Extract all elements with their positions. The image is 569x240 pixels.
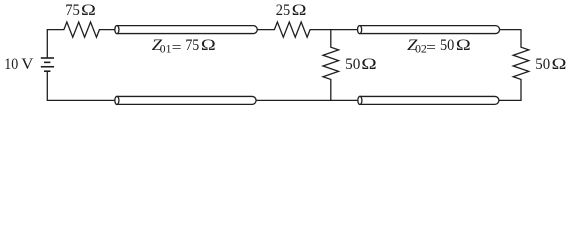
- svg-text:V: V: [21, 56, 34, 73]
- svg-text:50: 50: [440, 37, 454, 54]
- svg-text:75: 75: [185, 37, 199, 54]
- svg-text:Ω: Ω: [292, 2, 307, 19]
- svg-text:50: 50: [345, 56, 360, 73]
- svg-text:Ω: Ω: [552, 56, 567, 73]
- svg-text:Ω: Ω: [201, 37, 216, 54]
- svg-text:50: 50: [535, 56, 550, 73]
- svg-text:Ω: Ω: [456, 37, 471, 54]
- svg-text:Ω: Ω: [361, 56, 377, 73]
- svg-text:Ω: Ω: [81, 2, 96, 19]
- svg-text:01: 01: [160, 44, 172, 56]
- svg-text:25: 25: [276, 2, 290, 19]
- svg-text:75: 75: [65, 2, 80, 19]
- svg-text:10: 10: [4, 56, 18, 73]
- svg-text:=: =: [426, 40, 436, 57]
- svg-text:=: =: [172, 40, 182, 57]
